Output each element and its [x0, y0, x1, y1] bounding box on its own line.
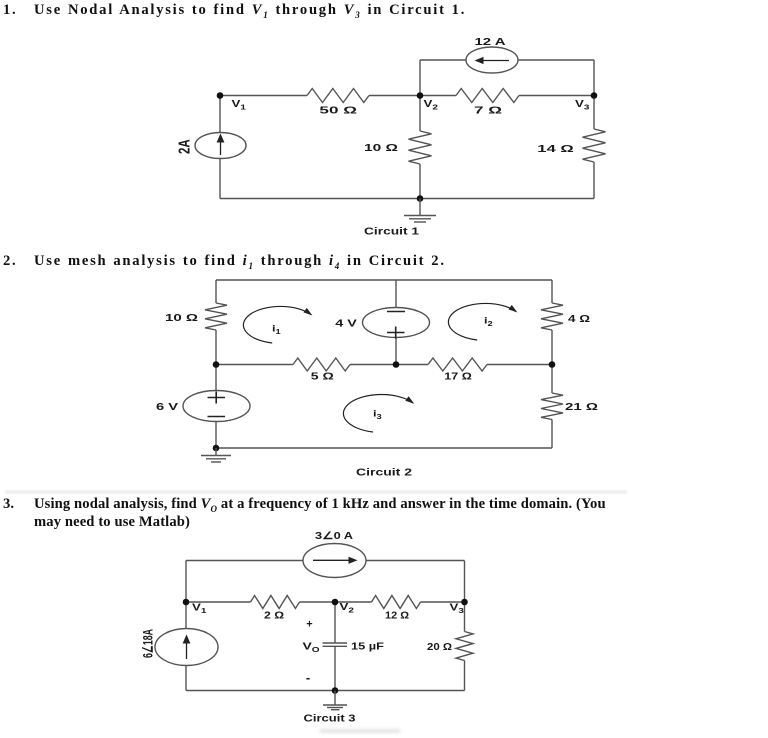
- label V1 circuit 3: [192, 602, 207, 614]
- wire: 3A source to top-right corner: [366, 560, 465, 562]
- svg-text:20 Ω: 20 Ω: [427, 642, 452, 653]
- problem 2 statement: [3, 253, 446, 271]
- svg-text:V1: V1: [232, 99, 247, 111]
- svg-text:7 Ω: 7 Ω: [474, 106, 502, 117]
- current source 2A (ellipse): [195, 133, 246, 159]
- value label 2A (rotated): [176, 139, 193, 154]
- node V3 (junction dot): [591, 92, 598, 99]
- wire: top-left corner down to V1 node: [185, 561, 187, 603]
- resistor R 14 ohm (V3 to bottom rail): [583, 129, 606, 162]
- svg-text:3∠0 A: 3∠0 A: [315, 531, 353, 542]
- svg-text:V3: V3: [575, 99, 590, 111]
- resistor R 12 ohm (V2 to V3): [372, 596, 421, 609]
- arrow inside 6-angle-18 source (pointing up): [186, 640, 188, 659]
- wire: middle rail left segment: [216, 364, 293, 366]
- svg-text:2A: 2A: [176, 139, 193, 154]
- polarity plus sign inside 4V source (bottom): [387, 327, 405, 339]
- wire: V2 node to 7-ohm resistor: [420, 95, 456, 97]
- svg-text:6 V: 6 V: [156, 402, 178, 413]
- wire: top rail left to 3A source: [186, 560, 303, 562]
- svg-text:VO: VO: [303, 640, 320, 653]
- wire: 50-ohm to V2 node: [369, 95, 420, 97]
- wire: 5-ohm to centre junction: [350, 364, 396, 366]
- svg-text:+: +: [306, 619, 312, 631]
- wire: right column middle rail down to 21-ohm: [551, 365, 553, 394]
- arrow inside 2A source (pointing up): [220, 139, 222, 155]
- ground symbol circuit 2: [201, 448, 231, 462]
- node V3 circuit 3 (dot): [461, 599, 468, 606]
- wire: V1 node down to 2A source: [219, 96, 221, 133]
- wire: V1 node to 50-ohm resistor: [220, 95, 307, 97]
- scan artifact streak: [5, 491, 627, 494]
- polarity minus sign inside 4V source (top): [387, 311, 405, 313]
- svg-text:12 A: 12 A: [475, 37, 506, 48]
- arrow inside 12A source (pointing left): [481, 60, 509, 62]
- mesh current arrow i1: [243, 306, 311, 343]
- label V2: [424, 99, 439, 111]
- label V2 circuit 3: [340, 602, 355, 614]
- wire: top rail circuit 2: [216, 279, 552, 281]
- resistor R 20 ohm (right branch): [456, 632, 473, 661]
- label Vo: [303, 640, 320, 653]
- wire: left column middle rail down to 6V source: [215, 365, 217, 391]
- current source 12A (ellipse): [466, 47, 518, 73]
- svg-text:10 Ω: 10 Ω: [364, 143, 398, 154]
- wire: 12-ohm to V3 node: [421, 601, 465, 603]
- wire: bottom rail circuit 3: [186, 690, 465, 692]
- node V2 circuit 3 (dot): [332, 599, 339, 606]
- wire: 7-ohm to V3 node: [519, 95, 594, 97]
- node V2 (junction dot): [417, 92, 424, 99]
- svg-text:V2: V2: [424, 99, 439, 111]
- wire: V2 node up to top rail: [419, 60, 421, 96]
- wire: 4V source down to middle rail: [395, 338, 397, 365]
- wire: top-right corner down to 4-ohm: [551, 280, 553, 303]
- wire: top-right corner down to V3 node: [464, 561, 466, 603]
- svg-text:6∠18A: 6∠18A: [140, 629, 156, 658]
- junction dot bottom of capacitor branch: [332, 687, 339, 694]
- wire: 14-ohm to bottom rail: [593, 162, 595, 199]
- wire: middle column down from top rail to 4V source: [395, 280, 397, 308]
- value label 6 angle 18 A (rotated): [140, 629, 156, 658]
- junction dot: bottom-left / ground: [213, 445, 220, 452]
- voltage source 6V (ellipse): [183, 391, 250, 422]
- wire: top-left corner down to 10-ohm: [215, 280, 217, 303]
- junction dot: centre of middle rail: [393, 361, 400, 368]
- wire: top rail left segment to 12A source: [420, 59, 466, 61]
- label V1: [232, 99, 247, 111]
- svg-text:12 Ω: 12 Ω: [385, 610, 409, 621]
- label V3 circuit 3: [450, 602, 465, 614]
- problem 1 statement: [3, 2, 466, 20]
- resistor R 5 ohm (middle rail): [293, 358, 350, 371]
- arrow inside 3A source (pointing right): [313, 559, 351, 561]
- label i1: [272, 324, 281, 336]
- polarity minus sign inside 6V source (bottom): [208, 416, 226, 418]
- label V3: [575, 99, 590, 111]
- wire: bottom rail circuit 2: [216, 447, 552, 449]
- current source 3 angle 0 A (ellipse): [303, 544, 366, 578]
- ground symbol circuit 3: [323, 691, 347, 710]
- wire: 4-ohm down to middle rail: [551, 330, 553, 365]
- wire: V3 node down to 14-ohm resistor: [593, 96, 595, 130]
- svg-text:2 Ω: 2 Ω: [264, 610, 284, 621]
- resistor R 7 ohm (between V2 and V3): [456, 89, 519, 103]
- wire: 2A source to bottom rail: [219, 159, 221, 199]
- current source 6 angle 18 A (ellipse): [155, 629, 218, 666]
- wire: V1 node to 2-ohm: [186, 601, 251, 603]
- scan artifact smudge bottom: [320, 729, 400, 733]
- svg-text:15 µF: 15 µF: [351, 642, 384, 653]
- junction dot at ground node: [417, 195, 424, 202]
- svg-text:V2: V2: [340, 602, 355, 614]
- svg-text:10 Ω: 10 Ω: [165, 313, 198, 324]
- svg-text:50 Ω: 50 Ω: [319, 106, 357, 117]
- svg-text:Circuit 3: Circuit 3: [304, 714, 357, 725]
- resistor R 4 ohm (right branch): [541, 303, 563, 330]
- svg-text:21 Ω: 21 Ω: [565, 402, 598, 413]
- mesh current arrow i2: [448, 303, 516, 340]
- svg-text:i3: i3: [373, 409, 382, 421]
- polarity plus sign inside 6V source (top): [208, 392, 226, 404]
- wire: source down to bottom rail: [185, 666, 187, 691]
- ground symbol circuit 1: [404, 199, 436, 223]
- wire: V3 node down to 20-ohm: [464, 602, 466, 632]
- svg-text:17 Ω: 17 Ω: [444, 372, 472, 383]
- resistor R 10 ohm (V2 to ground rail): [409, 131, 432, 164]
- label i2: [484, 316, 493, 328]
- svg-text:14 Ω: 14 Ω: [537, 144, 574, 155]
- problem 3 statement: [3, 498, 606, 530]
- resistor R 21 ohm (right branch lower): [541, 393, 563, 420]
- svg-text:4 V: 4 V: [335, 319, 357, 330]
- resistor R 17 ohm (middle rail): [428, 358, 487, 371]
- wire: 10-ohm down to middle rail: [215, 330, 217, 365]
- voltage source 4V (ellipse): [363, 308, 430, 338]
- svg-text:i1: i1: [272, 324, 281, 336]
- wire: 6V source down to bottom rail: [215, 422, 217, 449]
- wire: 20-ohm down to bottom rail: [464, 661, 466, 691]
- wire: 21-ohm down to bottom rail: [551, 420, 553, 449]
- wire: V1 node down to 6-angle-18 source: [185, 602, 187, 629]
- svg-text:Circuit 2: Circuit 2: [356, 468, 413, 479]
- svg-text:i2: i2: [484, 316, 493, 328]
- svg-text:4 Ω: 4 Ω: [568, 314, 590, 325]
- svg-text:-: -: [306, 670, 310, 685]
- wire: V2 node down to capacitor: [334, 602, 336, 643]
- resistor R 10 ohm (left branch): [205, 303, 227, 330]
- wire: centre junction to 17-ohm: [396, 364, 428, 366]
- wire: capacitor down to bottom junction: [334, 646, 336, 690]
- junction dot: left column / middle rail: [213, 361, 220, 368]
- wire: 12A source to right top corner: [518, 59, 594, 61]
- wire: 10-ohm to bottom junction: [419, 164, 421, 199]
- resistor R 50 ohm (between V1 and V2): [307, 89, 369, 103]
- svg-text:5 Ω: 5 Ω: [311, 372, 334, 383]
- label i3: [373, 409, 382, 421]
- wire: 17-ohm to right column: [487, 364, 552, 366]
- node V1 circuit 3 (dot): [183, 599, 190, 606]
- wire: V2 node down to 10-ohm resistor: [419, 96, 421, 132]
- capacitor C 15 uF (plates): [323, 642, 348, 644]
- node V1 (junction dot): [217, 92, 224, 99]
- wire: 2-ohm to V2 node: [300, 601, 336, 603]
- wire: bottom rail: [220, 198, 594, 200]
- junction dot: right column / middle rail: [549, 361, 556, 368]
- mesh current arrow i3: [343, 394, 413, 432]
- wire: V2 node to 12-ohm: [335, 601, 372, 603]
- svg-text:Circuit 1: Circuit 1: [364, 227, 420, 238]
- wire: top rail down to V3 node: [593, 60, 595, 96]
- svg-text:V1: V1: [192, 602, 207, 614]
- resistor R 2 ohm (V1 to V2): [251, 596, 300, 609]
